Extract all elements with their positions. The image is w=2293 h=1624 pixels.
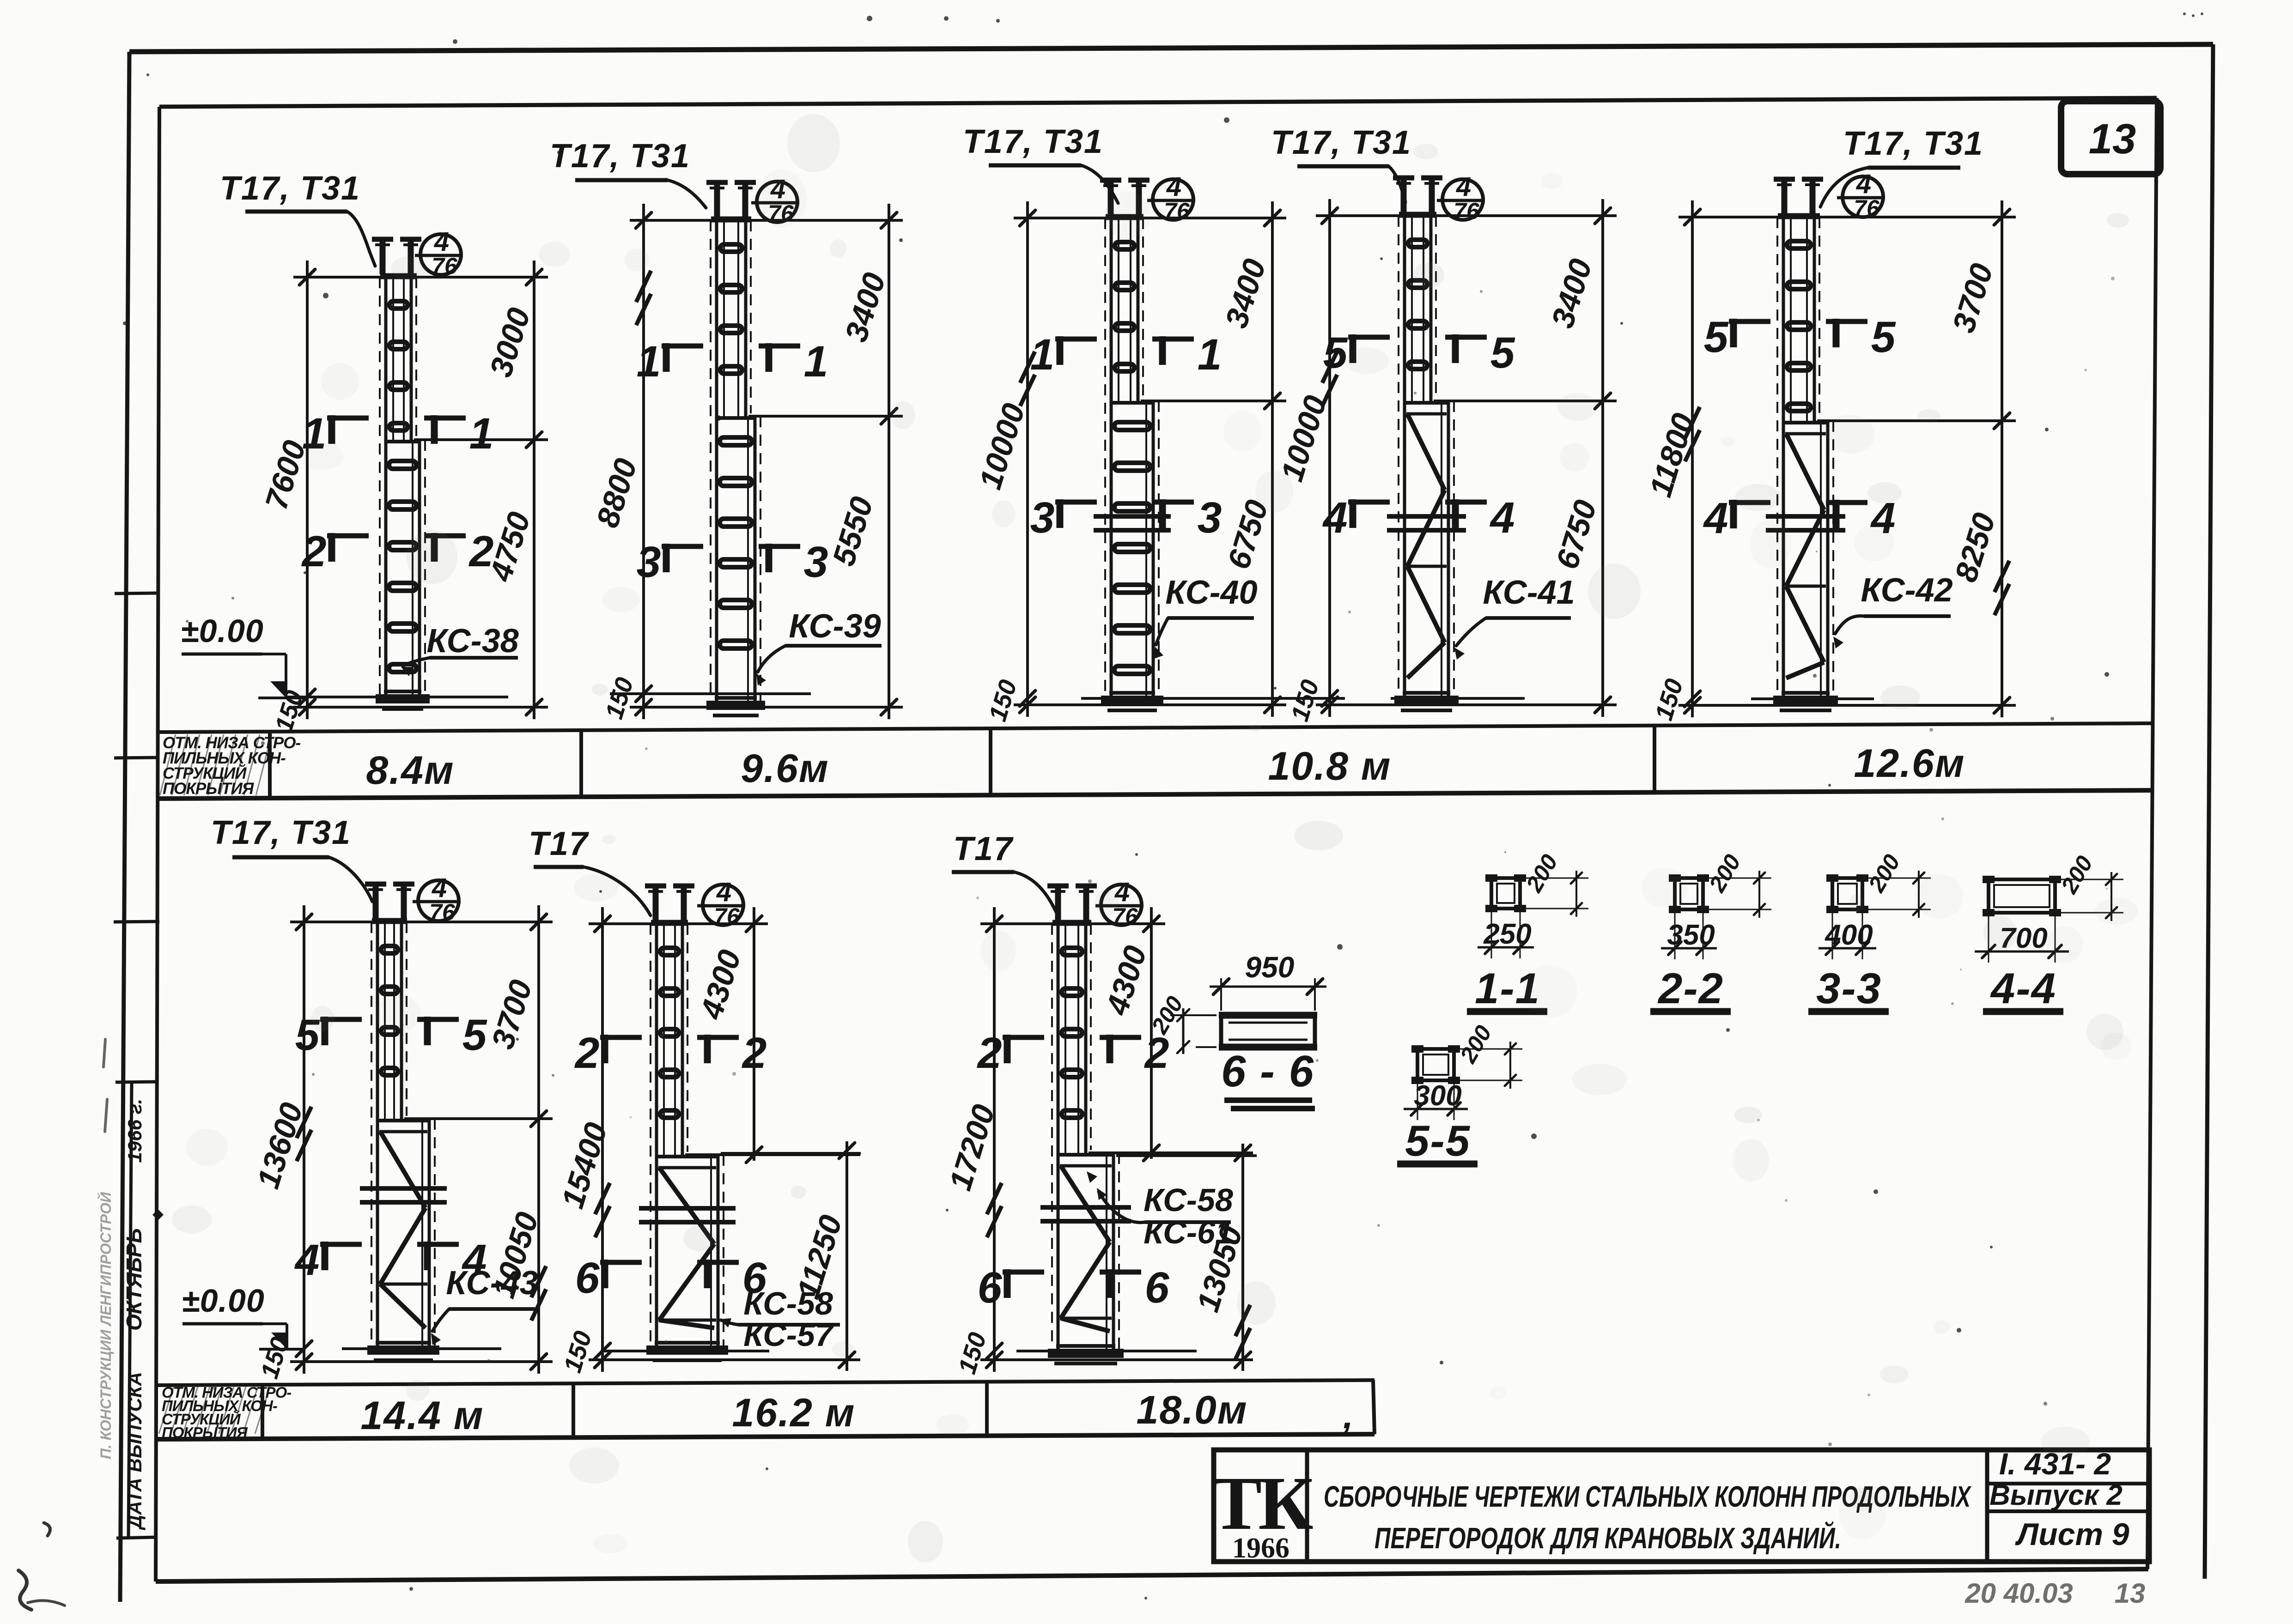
svg-text:4: 4 xyxy=(1166,172,1181,202)
svg-text:5: 5 xyxy=(1704,313,1729,362)
svg-text:4: 4 xyxy=(716,877,731,907)
svg-text:4: 4 xyxy=(432,873,447,903)
svg-text:6: 6 xyxy=(978,1263,1003,1312)
svg-text:76: 76 xyxy=(714,903,740,929)
svg-text:2: 2 xyxy=(742,1029,767,1078)
svg-text:5: 5 xyxy=(1323,328,1348,377)
svg-text:3: 3 xyxy=(1030,493,1055,542)
svg-text:4: 4 xyxy=(1322,493,1348,542)
svg-text:Т17: Т17 xyxy=(529,825,589,862)
svg-text:13: 13 xyxy=(2089,115,2136,163)
svg-text:5: 5 xyxy=(1871,313,1896,362)
svg-text:5: 5 xyxy=(462,1011,487,1060)
svg-text:4: 4 xyxy=(1490,493,1515,542)
svg-text:КС-61: КС-61 xyxy=(1143,1214,1233,1250)
svg-text:9.6м: 9.6м xyxy=(741,746,829,791)
svg-text:12.6м: 12.6м xyxy=(1854,741,1965,786)
svg-text:ПЕРЕГОРОДОК ДЛЯ КРАНОВЫХ ЗДАНИ: ПЕРЕГОРОДОК ДЛЯ КРАНОВЫХ ЗДАНИЙ. xyxy=(1375,1521,1841,1555)
svg-text:1: 1 xyxy=(1198,330,1222,379)
svg-text:КС-58: КС-58 xyxy=(743,1285,833,1321)
svg-text:КС-58: КС-58 xyxy=(1143,1182,1233,1218)
svg-text:1966 г.: 1966 г. xyxy=(124,1099,146,1163)
svg-text:Лист 9: Лист 9 xyxy=(2014,1517,2129,1552)
svg-text:950: 950 xyxy=(1245,951,1295,984)
svg-text:4: 4 xyxy=(1703,494,1728,543)
svg-text:1: 1 xyxy=(1030,330,1055,379)
svg-text:3: 3 xyxy=(804,538,828,587)
svg-text:16.2 м: 16.2 м xyxy=(732,1391,856,1435)
svg-text:Т17: Т17 xyxy=(953,830,1014,867)
svg-text:5-5: 5-5 xyxy=(1405,1116,1471,1165)
svg-text:6: 6 xyxy=(1145,1263,1170,1312)
svg-text:300: 300 xyxy=(1414,1080,1461,1112)
svg-text:400: 400 xyxy=(1824,919,1873,951)
svg-text:76: 76 xyxy=(429,899,456,925)
svg-text:T17, T31: T17, T31 xyxy=(211,814,351,851)
svg-text:76: 76 xyxy=(1454,198,1480,224)
svg-text:20 40.03: 20 40.03 xyxy=(1965,1578,2073,1609)
svg-text:350: 350 xyxy=(1667,919,1715,951)
svg-text:±0.00: ±0.00 xyxy=(182,1283,265,1319)
svg-text:6: 6 xyxy=(575,1254,600,1303)
svg-text:КС-39: КС-39 xyxy=(789,608,881,645)
svg-text:4: 4 xyxy=(294,1236,320,1285)
svg-text:2: 2 xyxy=(574,1029,600,1078)
svg-text:П. КОНСТРУКЦИИ ЛЕНГИПРОСТРОЙ: П. КОНСТРУКЦИИ ЛЕНГИПРОСТРОЙ xyxy=(97,1192,114,1459)
svg-text:76: 76 xyxy=(1854,195,1880,221)
svg-text:1: 1 xyxy=(469,409,494,458)
svg-text:,: , xyxy=(1343,1395,1353,1436)
svg-text:Выпуск 2: Выпуск 2 xyxy=(1989,1479,2123,1511)
svg-text:КС-43: КС-43 xyxy=(446,1265,538,1302)
svg-text:1: 1 xyxy=(804,337,828,386)
svg-text:1: 1 xyxy=(637,337,661,386)
svg-text:14.4 м: 14.4 м xyxy=(361,1394,484,1438)
svg-text:2: 2 xyxy=(468,527,494,576)
svg-text:T17, T31: T17, T31 xyxy=(1843,125,1983,162)
svg-text:18.0м: 18.0м xyxy=(1137,1388,1248,1432)
svg-text:2-2: 2-2 xyxy=(1657,964,1724,1012)
svg-text:2: 2 xyxy=(301,527,327,576)
svg-text:T17, T31: T17, T31 xyxy=(550,138,690,175)
svg-text:4-4: 4-4 xyxy=(1990,964,2056,1012)
svg-text:76: 76 xyxy=(1164,198,1190,224)
svg-text:4: 4 xyxy=(1456,172,1471,202)
svg-text:КС-40: КС-40 xyxy=(1165,574,1257,611)
svg-text:ОКТЯБРЬ: ОКТЯБРЬ xyxy=(122,1228,146,1331)
svg-text:КС-38: КС-38 xyxy=(426,623,518,660)
svg-text:ПОКРЫТИЯ: ПОКРЫТИЯ xyxy=(162,1424,248,1441)
svg-text:13: 13 xyxy=(2115,1578,2146,1609)
svg-text:8.4м: 8.4м xyxy=(366,748,454,793)
svg-text:КС-57: КС-57 xyxy=(743,1317,834,1353)
svg-text:КС-42: КС-42 xyxy=(1861,572,1952,609)
svg-text:4: 4 xyxy=(434,227,449,257)
svg-text:T17, T31: T17, T31 xyxy=(963,123,1103,160)
svg-text:5: 5 xyxy=(1490,328,1515,377)
svg-text:4: 4 xyxy=(1856,169,1871,199)
svg-text:±0.00: ±0.00 xyxy=(181,613,264,649)
svg-text:3: 3 xyxy=(637,538,661,587)
svg-text:2: 2 xyxy=(977,1029,1002,1078)
svg-text:3-3: 3-3 xyxy=(1816,964,1882,1012)
svg-text:КС-41: КС-41 xyxy=(1483,574,1575,611)
svg-text:250: 250 xyxy=(1483,918,1531,950)
svg-text:T17, T31: T17, T31 xyxy=(220,170,360,207)
svg-text:76: 76 xyxy=(432,253,458,279)
svg-text:6 - 6: 6 - 6 xyxy=(1221,1047,1314,1096)
svg-text:ДАТА ВЫПУСКА: ДАТА ВЫПУСКА xyxy=(124,1372,146,1530)
svg-text:3: 3 xyxy=(1198,493,1222,542)
svg-text:10.8 м: 10.8 м xyxy=(1268,744,1392,788)
svg-text:T17, T31: T17, T31 xyxy=(1271,124,1411,161)
svg-text:1966: 1966 xyxy=(1232,1533,1289,1564)
